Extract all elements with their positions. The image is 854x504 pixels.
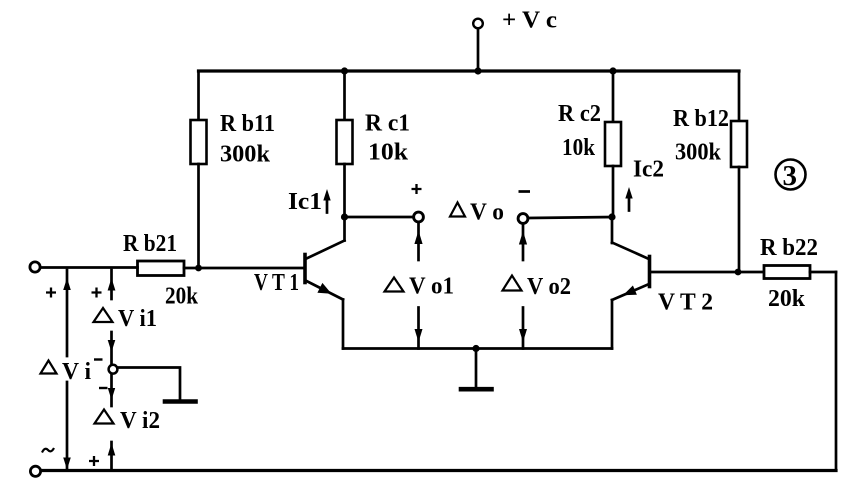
resistor Rb22 — [764, 266, 810, 279]
svg-text:3: 3 — [783, 160, 798, 192]
svg-text:V o: V o — [470, 200, 504, 226]
svg-text:V i2: V i2 — [120, 408, 160, 434]
dVo1 arrowhead down — [415, 329, 423, 342]
dVi2 arrow upper — [110, 375, 113, 406]
svg-text:R b11: R b11 — [220, 111, 275, 137]
circled 3 — [776, 160, 806, 190]
wire right edge down — [835, 272, 838, 471]
wire VT1 base — [199, 267, 304, 270]
junction Rc1/top rail — [341, 67, 348, 74]
VT1 emitter arrowhead — [317, 283, 331, 294]
svg-text:R b21: R b21 — [123, 231, 177, 257]
wire Rc2 bottom lead — [612, 166, 615, 218]
wire Rb12 bottom lead — [738, 167, 741, 272]
svg-text:V T 1: V T 1 — [254, 270, 299, 296]
svg-text:+ V c: + V c — [502, 8, 557, 34]
dVi2 arrowhead down — [108, 388, 115, 400]
svg-text:10k: 10k — [562, 135, 596, 161]
dVi arrow line — [66, 270, 69, 356]
dVi arrowhead down — [63, 458, 71, 470]
junction Rb11/base wire — [195, 265, 202, 272]
+ output terminal — [414, 212, 424, 222]
wire Vc stem — [477, 29, 480, 72]
triangle of dVo1 — [385, 278, 404, 292]
wire bottom rail — [42, 469, 836, 472]
svg-text:V i1: V i1 — [118, 306, 157, 332]
input terminal lower — [30, 466, 40, 476]
svg-text:V o2: V o2 — [527, 274, 571, 300]
dVi1 arrowhead up — [108, 278, 116, 291]
svg-text:V T 2: V T 2 — [658, 290, 713, 316]
transistor VT1 — [303, 255, 307, 283]
minus below mid terminal — [99, 387, 108, 389]
- output terminal — [518, 214, 528, 224]
triangle of dVo2 — [503, 276, 522, 291]
plus upper-left 2 — [92, 288, 102, 298]
dVo2 arrowhead down — [519, 329, 527, 342]
triangle of dVi1 — [94, 308, 113, 322]
Ic2 arrow — [628, 196, 631, 211]
input mid terminal — [109, 365, 118, 374]
resistor Rb21 — [138, 261, 185, 276]
dVi arrowhead up — [63, 278, 71, 290]
svg-text:300k: 300k — [220, 142, 271, 168]
wire mid terminal to ground — [118, 368, 181, 400]
triangle of dVi — [41, 361, 57, 374]
junction Rb12/base wire — [735, 269, 742, 276]
svg-text:20k: 20k — [165, 284, 199, 310]
junction VT2 collector node — [608, 213, 615, 220]
junction VT1 collector node — [341, 213, 348, 220]
VT2 emitter arrowhead — [623, 286, 637, 296]
junction Vc/top rail — [474, 67, 481, 74]
dVi1 arrow lower — [110, 332, 113, 363]
svg-text:R b12: R b12 — [673, 106, 729, 132]
wire input to Rb21 — [42, 266, 138, 269]
wire Rc1 bottom lead — [343, 164, 346, 218]
svg-text:V o1: V o1 — [409, 274, 454, 300]
svg-text:300k: 300k — [675, 140, 722, 166]
svg-text:V i: V i — [62, 359, 91, 385]
svg-text:Ic2: Ic2 — [633, 157, 664, 183]
wire - output terminal to VT2 collector — [528, 217, 613, 218]
svg-text:Ic1: Ic1 — [288, 189, 322, 215]
wire VT1 emitter down — [342, 300, 345, 349]
dVo2 arrow upper — [522, 224, 525, 260]
triangle of dVo — [450, 203, 465, 217]
resistor Rb11 — [191, 120, 207, 164]
transistor VT2 — [648, 257, 652, 287]
plus above + terminal — [412, 184, 422, 194]
dVi2 arrowhead up — [108, 443, 116, 456]
svg-text:20k: 20k — [768, 286, 806, 312]
wire Rb12 top lead — [738, 71, 741, 121]
Ic1 arrowhead — [323, 189, 330, 201]
wire Rc1 top lead — [343, 71, 346, 120]
svg-text:10k: 10k — [368, 140, 409, 166]
svg-text:R c1: R c1 — [365, 111, 410, 137]
resistor Rc1 — [337, 120, 353, 164]
tilde lower-left — [42, 448, 54, 453]
dVo2 arrow lower — [522, 308, 525, 349]
wire Rb22 to right edge — [810, 271, 836, 274]
dVo1 arrow upper — [417, 223, 420, 260]
svg-text:R b22: R b22 — [760, 235, 818, 261]
Ic1 arrow — [326, 198, 329, 213]
Ic2 arrowhead — [625, 187, 632, 199]
wire Rb11 top lead — [197, 71, 200, 120]
resistor Rc2 — [605, 122, 621, 166]
ground small — [165, 399, 196, 404]
minus above mid terminal — [94, 358, 103, 360]
dVo1 arrow lower — [417, 308, 420, 349]
wire VT1 collector to + output terminal — [345, 216, 415, 219]
wire top rail — [199, 69, 740, 72]
wire VT2 emitter down — [611, 300, 614, 349]
ground — [475, 349, 478, 388]
dVi2 arrow lower — [110, 442, 113, 470]
plus lower-left — [89, 456, 99, 466]
wire Rc2 top lead — [612, 71, 615, 122]
input terminal upper — [30, 262, 40, 272]
wire emitter rail — [343, 347, 612, 350]
wire Rb11 bottom lead — [197, 164, 200, 268]
dVo2 arrowhead up — [519, 231, 527, 245]
resistor Rb12 — [731, 121, 747, 167]
plus upper-left 1 — [46, 288, 56, 298]
junction Rc2/top rail — [609, 67, 616, 74]
wire VT2 base — [651, 271, 764, 274]
wire Rb21 to base node — [184, 267, 199, 270]
svg-text:R c2: R c2 — [558, 101, 601, 127]
junction emitter rail/ground — [472, 345, 479, 352]
+Vc supply terminal — [473, 19, 483, 29]
dVo1 arrowhead up — [414, 231, 422, 245]
minus above - terminal — [519, 190, 531, 193]
dVi1 arrowhead down — [108, 340, 116, 352]
dVi1 arrow upper — [110, 270, 113, 299]
triangle of dVi2 — [95, 410, 114, 424]
